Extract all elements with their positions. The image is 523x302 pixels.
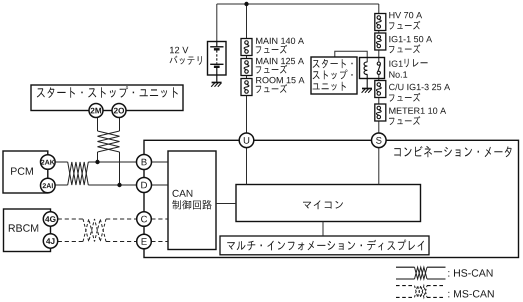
node C xyxy=(137,212,152,227)
label: 12 V battery xyxy=(170,47,188,54)
pin 4G xyxy=(43,212,57,226)
wire: twist to D-line junction xyxy=(119,152,121,185)
fuse C/U IG1-3 25 A xyxy=(375,81,386,98)
PCM box xyxy=(3,151,48,193)
label: combination meter xyxy=(394,146,511,157)
wire: PCM 2AI to twist (CAN-L) xyxy=(55,184,68,186)
wire: battery feed down xyxy=(216,4,218,42)
wire: twist to node B xyxy=(88,161,136,163)
wire: twist to node E (dashed) xyxy=(106,241,137,243)
battery 12V xyxy=(208,42,227,76)
pin labels xyxy=(91,108,102,114)
twisted pair: start-stop unit HS-CAN xyxy=(98,131,120,152)
CAN control circuit box U1 xyxy=(168,151,216,250)
wire: right column down to HV fuse xyxy=(378,4,380,14)
wire: node D to CAN circuit xyxy=(152,184,169,186)
fuse IG1-1 50 A xyxy=(375,33,386,50)
label: MAIN 125 A fuse xyxy=(256,58,304,64)
relay contact xyxy=(377,64,380,73)
wire: METER1 fuse down to node S xyxy=(378,121,380,133)
wire: PCM 2AK to twist (CAN-H) xyxy=(55,161,68,163)
label: HS-CAN legend xyxy=(448,269,492,276)
twisted pair: RBCM MS-CAN (dashed) xyxy=(83,219,106,242)
label: MAIN 140 A fuse xyxy=(256,38,304,44)
pin 2AK xyxy=(41,155,56,170)
wire: battery positive rail (top horizontal) xyxy=(217,3,379,5)
junction: B line xyxy=(95,160,99,164)
wire: twist to node D xyxy=(88,184,136,186)
wire: relay contact to C/U fuse xyxy=(378,74,380,80)
wire: start-stop unit to IG1 relay coil xyxy=(335,51,367,62)
pin 2AI xyxy=(41,178,56,193)
wire: node U down to microcomputer xyxy=(246,148,248,185)
wire: node B to CAN circuit xyxy=(152,161,169,163)
node S xyxy=(372,133,387,148)
pin 4J xyxy=(43,234,57,248)
wire: node S down to microcomputer xyxy=(378,148,380,185)
node E xyxy=(137,234,152,249)
node D xyxy=(137,178,152,193)
node U xyxy=(239,133,254,148)
wire: node E to CAN circuit (dashed) xyxy=(151,241,168,243)
combination meter box (コンビネーション・メータ) xyxy=(144,140,519,257)
twisted pair: PCM HS-CAN xyxy=(68,162,89,185)
node letters xyxy=(244,137,249,144)
label: CAN control circuit xyxy=(173,190,193,197)
microcomputer box (マイコン) xyxy=(236,185,421,222)
label: IG1 relay No.1 xyxy=(389,61,402,67)
label: start-stop unit (left) xyxy=(37,86,178,98)
ground: relay coil xyxy=(362,88,372,90)
ground: battery xyxy=(212,82,222,84)
label: start-stop unit (right) xyxy=(313,59,353,68)
wire: node C to CAN circuit (dashed) xyxy=(151,218,168,220)
wire: microcomputer to display xyxy=(322,222,324,237)
fuse HV 70 A xyxy=(375,14,386,31)
legend HS-CAN symbol xyxy=(396,266,415,268)
start-stop unit box (left) xyxy=(31,85,183,111)
label: METER1 10 A fuse xyxy=(389,108,446,114)
legend MS-CAN symbol xyxy=(396,285,415,287)
relay IG1 No.1 xyxy=(360,58,385,79)
wire: twist to B-line junction xyxy=(97,152,99,162)
wire: RBCM 4G to twist (dashed MS-CAN) xyxy=(58,218,83,220)
wire: RBCM 4J to twist (dashed) xyxy=(58,241,83,243)
fuse METER1 10 A xyxy=(375,104,386,121)
start-stop unit box (right small) xyxy=(311,57,357,94)
wire: fuse column branch down xyxy=(246,4,248,39)
fuse MAIN 140 A xyxy=(241,39,252,56)
fuse MAIN 125 A xyxy=(241,59,252,76)
label: ROOM 15 A fuse xyxy=(256,77,304,83)
label: C/U IG1-3 25 A fuse xyxy=(389,84,450,91)
wire: CAN circuit to microcomputer xyxy=(216,203,236,205)
junction: D line xyxy=(117,183,121,187)
junction: top rail to fuse column xyxy=(244,2,248,6)
label: HV 70 A fuse xyxy=(389,12,422,18)
wire: 2M down xyxy=(97,117,99,131)
wire: between MAIN fuses xyxy=(246,56,248,59)
label: microcomputer xyxy=(303,200,343,209)
wire: twist to node C (dashed) xyxy=(106,218,137,220)
multi-information display box xyxy=(220,236,429,255)
label: multi-information display xyxy=(227,240,424,251)
node B xyxy=(137,155,152,170)
label: PCM xyxy=(11,167,33,175)
pin 2O xyxy=(112,104,126,118)
pin 2M xyxy=(89,104,103,118)
wire: 2O down xyxy=(119,117,121,131)
label: MS-CAN legend xyxy=(448,290,493,297)
wire: IG1-1 fuse to relay contact xyxy=(378,50,380,62)
label: IG1-1 50 A fuse xyxy=(389,36,432,42)
fuse ROOM 15 A xyxy=(241,79,252,96)
label: RBCM xyxy=(9,224,38,232)
RBCM box xyxy=(4,209,51,252)
wire: ROOM fuse down to node U xyxy=(246,96,248,134)
